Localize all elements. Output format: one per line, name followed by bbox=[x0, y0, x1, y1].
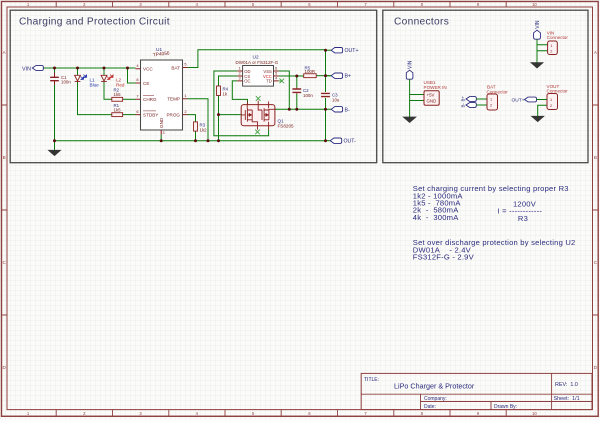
netport B- bbox=[331, 107, 342, 112]
wire column to OUT+ port stub bbox=[326, 49, 332, 51]
svg-text:3: 3 bbox=[238, 76, 240, 80]
svg-text:2: 2 bbox=[550, 50, 552, 54]
netport OUT+ bbox=[331, 48, 342, 53]
svg-text:GND: GND bbox=[159, 117, 164, 128]
wire U2 VSS to B- line bbox=[279, 71, 290, 109]
svg-text:6: 6 bbox=[275, 67, 277, 71]
annotation: charging current note bbox=[413, 184, 569, 222]
svg-text:Company:: Company: bbox=[424, 396, 447, 402]
svg-text:STDBY: STDBY bbox=[143, 112, 158, 117]
svg-text:B-: B- bbox=[461, 103, 466, 108]
connector VOUT bbox=[547, 94, 558, 110]
wire R5 to B+ port bbox=[316, 75, 331, 77]
svg-text:1k5: 1k5 bbox=[114, 92, 122, 97]
wire LED L1 cathode to R1 bbox=[78, 82, 112, 115]
wire CS net to R4 bbox=[219, 76, 238, 86]
ground symbol (main circuit) bbox=[49, 150, 61, 155]
ground symbol (VIN connector) bbox=[531, 63, 543, 68]
svg-text:TD: TD bbox=[266, 79, 272, 84]
op-amp U1 TP4056 IC body bbox=[141, 60, 183, 130]
svg-text:10u: 10u bbox=[332, 97, 340, 102]
svg-text:1k: 1k bbox=[223, 91, 228, 96]
svg-text:7: 7 bbox=[136, 94, 138, 99]
capacitor C3 bbox=[321, 93, 330, 96]
wire Q1 drain to B- port bbox=[275, 108, 331, 110]
netport VIN (connectors, top) vertical bbox=[534, 30, 541, 39]
Q1 internal MOSFET symbols bbox=[241, 105, 275, 126]
svg-text:4k - 300mA: 4k - 300mA bbox=[413, 213, 459, 222]
svg-text:2: 2 bbox=[184, 109, 186, 114]
netport B+ (connectors) bbox=[466, 97, 476, 102]
wire ground rail bbox=[55, 140, 326, 142]
netport B- (connectors) bbox=[466, 103, 476, 108]
svg-text:POWER IN: POWER IN bbox=[424, 85, 447, 90]
svg-text:FS8205: FS8205 bbox=[278, 124, 295, 129]
transistor Q1 FS8205 dual MOSFET body bbox=[241, 105, 275, 126]
wire C1 top connection bbox=[54, 68, 56, 73]
svg-text:1: 1 bbox=[184, 93, 186, 98]
svg-text:Connectors: Connectors bbox=[394, 17, 449, 28]
svg-text:5: 5 bbox=[184, 62, 186, 67]
svg-text:GND: GND bbox=[427, 99, 437, 104]
netport VIN (connectors, usb) vertical bbox=[406, 70, 413, 79]
frame column tick marks bbox=[56, 2, 506, 417]
wire R3 to ground rail bbox=[195, 131, 197, 141]
svg-text:3: 3 bbox=[162, 130, 164, 135]
svg-text:B+: B+ bbox=[345, 74, 352, 80]
ground symbol (USB1) bbox=[403, 117, 416, 123]
svg-text:CHRG: CHRG bbox=[143, 97, 157, 102]
svg-text:Charging and Protection Circui: Charging and Protection Circuit bbox=[19, 17, 170, 28]
LED L1 (blue) bbox=[75, 75, 81, 81]
svg-text:OUT+: OUT+ bbox=[345, 48, 359, 54]
svg-text:VIN: VIN bbox=[408, 60, 414, 69]
svg-text:Connector: Connector bbox=[547, 89, 569, 94]
svg-text:Blue: Blue bbox=[90, 82, 100, 87]
svg-text:VIN: VIN bbox=[22, 66, 31, 72]
svg-text:CE: CE bbox=[143, 81, 149, 86]
frame row tick marks bbox=[2, 105, 599, 315]
wire ground stem bbox=[54, 141, 56, 151]
connector BAT bbox=[487, 94, 498, 110]
svg-text:PROG: PROG bbox=[166, 112, 180, 117]
svg-text:8: 8 bbox=[136, 77, 138, 82]
svg-text:4: 4 bbox=[275, 76, 277, 80]
svg-text:Connector: Connector bbox=[547, 35, 569, 40]
junction dots bbox=[53, 49, 327, 143]
svg-text:6: 6 bbox=[136, 109, 138, 114]
svg-text:B: B bbox=[594, 155, 597, 160]
svg-text:1: 1 bbox=[238, 67, 240, 71]
wire BAT- column lower bbox=[325, 98, 327, 141]
wire LED L1 anode bbox=[77, 68, 79, 75]
U1 pin stubs bbox=[136, 68, 188, 135]
wire LED L2 cathode to R2 bbox=[104, 82, 112, 99]
svg-text:B: B bbox=[3, 155, 6, 160]
svg-text:100n: 100n bbox=[61, 80, 71, 85]
wires VOUT connector bbox=[537, 100, 548, 117]
LED L2 (red) bbox=[101, 75, 107, 81]
svg-text:VIN: VIN bbox=[535, 20, 541, 29]
U2 pin numbers bbox=[238, 67, 277, 81]
svg-text:2: 2 bbox=[550, 104, 552, 108]
svg-text:1k2: 1k2 bbox=[200, 127, 208, 132]
svg-text:TEMP: TEMP bbox=[167, 97, 180, 102]
ground symbol (VOUT) bbox=[532, 116, 544, 121]
wire R2 to CHRG pin bbox=[123, 98, 136, 100]
svg-text:REV: 1.0: REV: 1.0 bbox=[555, 382, 578, 388]
wires VIN connector bbox=[537, 39, 548, 63]
netport OUT- bbox=[330, 138, 341, 143]
wire R1 to STDBY pin bbox=[123, 114, 136, 116]
wire BAT to OUT+ net bbox=[188, 50, 326, 68]
svg-text:VCC: VCC bbox=[143, 67, 153, 72]
wire VIN top rail bbox=[43, 67, 135, 69]
wire U1 GND to ground rail bbox=[160, 135, 162, 141]
section box: Connectors bbox=[383, 10, 588, 163]
svg-text:1: 1 bbox=[490, 98, 492, 102]
wire OC net to Q1 gate1 bbox=[232, 81, 247, 105]
wire U2 VCC to R5 bbox=[279, 75, 304, 77]
svg-text:5: 5 bbox=[275, 72, 277, 76]
no-connect X marks on Q1 unused pins bbox=[256, 96, 261, 101]
wire OD net to Q1 gate2 bbox=[214, 71, 269, 136]
svg-text:100R: 100R bbox=[305, 69, 316, 74]
svg-text:LiPo Charger & Protector: LiPo Charger & Protector bbox=[394, 382, 475, 391]
resistor R1 bbox=[112, 113, 123, 117]
wire PROG to R3 bbox=[188, 115, 196, 122]
U1 pin numbers bbox=[136, 62, 186, 135]
svg-text:OC: OC bbox=[244, 79, 250, 84]
svg-text:2: 2 bbox=[490, 104, 492, 108]
wire R4 bottom to rail bbox=[218, 96, 220, 141]
title block frame bbox=[361, 373, 592, 409]
resistor R4 bbox=[217, 86, 221, 96]
wire column to B+ port stub bbox=[326, 75, 332, 77]
resistor R3 bbox=[194, 122, 198, 131]
svg-text:100n: 100n bbox=[303, 93, 313, 98]
wire LED L2 anode bbox=[103, 68, 105, 75]
connector USB1 POWER IN bbox=[424, 91, 439, 105]
svg-text:1: 1 bbox=[550, 44, 552, 48]
svg-text:10: 10 bbox=[532, 2, 537, 7]
svg-text:1k5: 1k5 bbox=[114, 108, 122, 113]
annotation: discharge protection note bbox=[413, 238, 576, 262]
svg-text:Sheet: 1/1: Sheet: 1/1 bbox=[554, 396, 580, 402]
svg-text:FS312F-G - 2.9V: FS312F-G - 2.9V bbox=[413, 253, 475, 262]
resistor R2 bbox=[112, 97, 123, 101]
svg-text:TITLE:: TITLE: bbox=[364, 377, 379, 383]
netport VIN (input) bbox=[32, 65, 43, 70]
netport B+ bbox=[331, 73, 342, 78]
U1 pin names bbox=[143, 65, 180, 128]
U2 pin names bbox=[244, 69, 272, 84]
svg-text:Drawn By:: Drawn By: bbox=[494, 404, 517, 410]
op-amp U2 DW01A protection IC body bbox=[243, 66, 274, 87]
capacitor C2 bbox=[292, 89, 301, 92]
svg-text:OUT+: OUT+ bbox=[512, 98, 525, 104]
title block text bbox=[364, 377, 580, 410]
svg-text:+5V: +5V bbox=[427, 93, 435, 98]
wire CS node to Q1 left pin bbox=[219, 114, 242, 116]
wires BAT connector bbox=[476, 99, 487, 105]
resistor R5 bbox=[304, 74, 317, 78]
svg-text:R3: R3 bbox=[518, 214, 528, 223]
connector VIN bbox=[548, 41, 558, 55]
svg-text:B-: B- bbox=[345, 107, 350, 113]
svg-text:BAT: BAT bbox=[171, 65, 180, 70]
no-connect X on U2 TD pin bbox=[279, 79, 284, 84]
svg-text:1: 1 bbox=[550, 98, 552, 102]
wire rail to OUT- port bbox=[326, 140, 331, 142]
wire C2 top connection bbox=[296, 76, 298, 88]
wire C2 bottom connection bbox=[296, 94, 298, 110]
frame row letters bbox=[3, 50, 598, 370]
wire USB1 VIN down bbox=[410, 79, 424, 117]
U2 pin stubs bbox=[237, 71, 278, 81]
svg-text:10: 10 bbox=[532, 411, 537, 416]
wire CE pin to VIN rail bbox=[128, 68, 136, 83]
wire C1 bottom to ground rail bbox=[54, 82, 56, 141]
svg-text:Connector: Connector bbox=[487, 89, 509, 94]
Q1 top/bottom pin stubs bbox=[248, 101, 269, 130]
svg-text:B+: B+ bbox=[461, 96, 466, 102]
wire TEMP to ground rail bbox=[188, 99, 209, 141]
wire BAT+ column upper bbox=[325, 50, 327, 92]
section box: Charging and Protection Circuit bbox=[10, 10, 377, 163]
svg-text:DW01A or FS312F-G: DW01A or FS312F-G bbox=[236, 60, 279, 65]
svg-text:2: 2 bbox=[238, 72, 240, 76]
capacitor C1 bbox=[54, 73, 56, 86]
svg-text:OUT-: OUT- bbox=[344, 139, 357, 145]
svg-text:Date:: Date: bbox=[424, 404, 436, 410]
